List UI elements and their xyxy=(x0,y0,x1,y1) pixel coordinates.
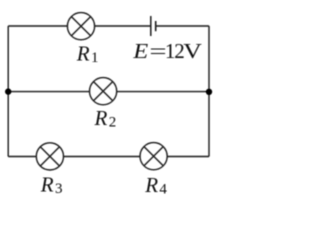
svg-text:E: E xyxy=(132,39,148,63)
svg-text:3: 3 xyxy=(55,181,63,197)
wire: left vertical (top corner to bottom corner) xyxy=(7,26,9,157)
lamp R4 xyxy=(140,143,167,170)
wire: top segment R1 to battery xyxy=(95,25,151,27)
svg-text:R: R xyxy=(76,41,90,65)
svg-text:V: V xyxy=(183,39,202,63)
wire: middle-left segment (node A to R2) xyxy=(8,91,89,93)
svg-text:R: R xyxy=(94,106,108,130)
label E=12V (battery value) xyxy=(132,39,202,63)
svg-text:12: 12 xyxy=(165,39,184,63)
svg-text:2: 2 xyxy=(109,115,117,131)
wire: top-right segment battery to corner xyxy=(156,25,209,27)
wire: top-left segment (corner to R1) xyxy=(8,25,67,27)
node B (right junction dot) xyxy=(206,89,212,95)
lamp R1 xyxy=(67,13,94,40)
wire: middle-right segment (R2 to node B) xyxy=(117,91,209,93)
wire: bottom-left segment (corner to R3) xyxy=(8,156,36,158)
node A (left junction dot) xyxy=(5,88,11,94)
svg-text:4: 4 xyxy=(159,182,167,198)
lamp R3 xyxy=(36,143,63,170)
lamp R2 xyxy=(90,78,117,105)
label R4 xyxy=(144,173,167,198)
battery E (long positive plate) xyxy=(150,16,152,36)
label R2 xyxy=(94,106,117,131)
svg-text:1: 1 xyxy=(91,50,99,66)
wire: right vertical (top corner to bottom corner) xyxy=(208,26,210,157)
svg-text:R: R xyxy=(144,173,158,197)
svg-text:R: R xyxy=(40,172,54,196)
wire: bottom-middle segment (R3 to R4) xyxy=(64,156,141,158)
label R1 xyxy=(76,41,99,66)
battery E (short negative plate) xyxy=(155,21,157,31)
label R3 xyxy=(40,172,63,197)
wire: bottom-right segment (R4 to corner) xyxy=(167,156,209,158)
